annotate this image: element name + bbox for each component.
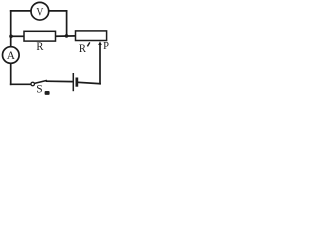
svg-text:R: R <box>36 41 44 53</box>
svg-text:P: P <box>103 41 109 52</box>
svg-text:R: R <box>79 43 87 55</box>
switch pivot circle <box>31 82 35 86</box>
junction dot right (voltmeter loop / middle wire) <box>65 34 69 38</box>
wire left vertical (top corner down to ammeter) <box>10 11 12 46</box>
wire battery to bottom-right corner <box>78 82 100 83</box>
battery short plate (negative) <box>76 78 79 87</box>
wire top-right horizontal (voltmeter to corner) <box>49 10 67 12</box>
wire left vertical lower (ammeter to bottom rail) <box>10 64 12 85</box>
wire middle right (R to R' through junction) <box>56 35 76 37</box>
cropped mark at bottom <box>45 91 50 95</box>
svg-text:S: S <box>36 84 42 96</box>
prime mark of R' <box>87 42 89 46</box>
wire middle left (left rail to R) <box>11 35 24 37</box>
wire switch to battery <box>47 80 72 82</box>
resistor R <box>24 31 56 41</box>
battery long plate (positive) <box>72 73 74 91</box>
wire top-left horizontal (corner to voltmeter) <box>11 10 32 12</box>
wire right vertical of voltmeter loop <box>66 11 68 36</box>
rheostat R' <box>76 31 107 41</box>
switch blade S <box>35 80 47 83</box>
ammeter U-A <box>3 47 20 64</box>
voltmeter U-V <box>31 2 49 20</box>
wire slider stem down to bottom rail <box>99 44 101 84</box>
junction dot left (left rail / middle wire) <box>9 35 13 39</box>
wire bottom-left (corner to switch pivot) <box>11 83 31 85</box>
svg-text:A: A <box>7 50 16 62</box>
svg-text:V: V <box>36 7 43 19</box>
slider arrow P (arrowhead) <box>98 41 102 45</box>
